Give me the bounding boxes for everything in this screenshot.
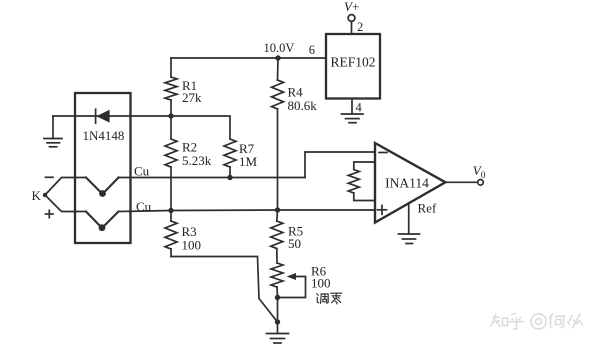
ground left bbox=[44, 116, 62, 147]
svg-text:50: 50 bbox=[288, 236, 301, 251]
node 10.0V rail / R4 tap bbox=[275, 55, 280, 60]
isothermal block box bbox=[75, 93, 131, 243]
watermark zhihu @hebi bbox=[491, 314, 583, 330]
svg-text:K: K bbox=[32, 188, 42, 203]
svg-text:REF102: REF102 bbox=[330, 55, 375, 70]
svg-text:6: 6 bbox=[309, 43, 315, 57]
resistor R3 bbox=[165, 211, 201, 257]
ground REF102 bbox=[342, 114, 364, 123]
svg-text:V+: V+ bbox=[344, 0, 359, 14]
node R4/R5/+input bbox=[275, 207, 280, 212]
op-amp U2 INA114 bbox=[375, 143, 445, 223]
svg-text:100: 100 bbox=[311, 276, 331, 291]
svg-text:4: 4 bbox=[356, 101, 363, 115]
wire top rail 10.0V bbox=[171, 57, 326, 59]
label minus of thermocouple bbox=[46, 176, 54, 178]
wire diode line to node bbox=[53, 115, 171, 117]
wire upper Cu to bend bbox=[119, 177, 306, 179]
node R7 / upper Cu wire bbox=[227, 175, 232, 180]
wire lower Cu lead bbox=[45, 195, 86, 212]
resistor R4 bbox=[272, 58, 318, 210]
wire upper Cu lead bbox=[45, 178, 86, 196]
svg-text:100: 100 bbox=[182, 238, 202, 253]
diode VD 1N4148 bbox=[83, 109, 125, 143]
svg-text:Ref: Ref bbox=[418, 201, 437, 216]
node ground junction bottom bbox=[275, 319, 280, 324]
svg-text:80.6k: 80.6k bbox=[288, 98, 318, 113]
label tiaoling (zero adjust) bbox=[317, 293, 342, 304]
label Cu upper bbox=[134, 164, 150, 179]
thermocouple junction lower bbox=[86, 212, 119, 232]
pin 4 of REF102 bbox=[352, 99, 363, 115]
node R6 bottom / wiper bbox=[275, 295, 280, 300]
resistor RG (gain set) bbox=[348, 162, 375, 201]
resistor R7 bbox=[224, 139, 258, 178]
label plus of thermocouple bbox=[46, 210, 54, 217]
ground INA114 ref bbox=[399, 234, 420, 244]
IC U1 REF102 bbox=[309, 34, 380, 99]
resistor R5 bbox=[271, 210, 303, 263]
terminal Vo bbox=[473, 163, 486, 185]
potentiometer R6 bbox=[271, 263, 331, 298]
svg-text:0: 0 bbox=[481, 171, 486, 181]
thermocouple junction upper bbox=[86, 178, 119, 197]
node R2/R3/lower Cu wire bbox=[168, 208, 173, 213]
node label 10.0V bbox=[264, 41, 295, 55]
svg-text:INA114: INA114 bbox=[385, 176, 429, 191]
svg-text:2: 2 bbox=[357, 20, 363, 34]
svg-text:Cu: Cu bbox=[134, 164, 150, 179]
terminal V+ bbox=[344, 0, 363, 34]
node K terminal bbox=[32, 188, 48, 203]
svg-text:Cu: Cu bbox=[136, 199, 152, 214]
wire R6 node to ground bbox=[277, 298, 279, 334]
svg-text:27k: 27k bbox=[182, 90, 202, 105]
wire bend up to minus input bbox=[305, 152, 375, 178]
resistor R2 bbox=[165, 116, 212, 211]
label Cu lower bbox=[136, 199, 152, 214]
svg-text:10.0V: 10.0V bbox=[264, 41, 295, 55]
wire output bbox=[445, 181, 477, 183]
svg-text:1M: 1M bbox=[239, 154, 258, 169]
resistor R1 bbox=[165, 58, 202, 116]
svg-text:5.23k: 5.23k bbox=[182, 153, 212, 168]
node R1/R2/diode junction bbox=[168, 113, 173, 118]
wire R3 bottom to ground node bbox=[171, 257, 278, 323]
ground bottom bbox=[267, 334, 289, 344]
wire lower Cu to plus input bbox=[119, 210, 375, 212]
pin Ref of INA114 bbox=[409, 201, 437, 235]
svg-text:1N4148: 1N4148 bbox=[83, 128, 125, 143]
wire node to R7 top bbox=[171, 116, 230, 139]
